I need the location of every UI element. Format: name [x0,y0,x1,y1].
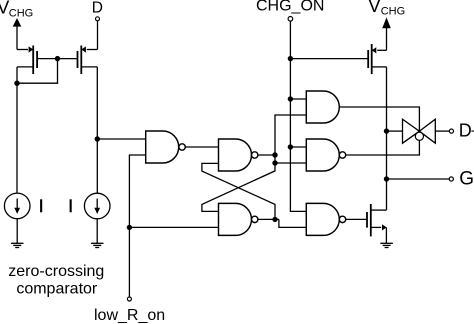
wire CHG_ON vertical to U6 input [290,21,306,211]
svg-text:D: D [92,0,103,16]
nand gate U5 [306,139,345,171]
node drain-gate junction [14,81,19,86]
power arrow V_CHG (left) [13,18,22,50]
nand gate U3 (latch bottom) [219,203,258,235]
power arrow V_CHG (right) [382,17,391,50]
node G output [384,176,389,181]
text zero-crossing comparator [8,263,104,298]
wire D terminal to M2 source [97,21,99,50]
ground (under I1) [11,243,24,247]
terminal G [449,177,453,181]
wire U4 output to switch top control [339,107,419,132]
svg-text:zero-crossing: zero-crossing [8,263,104,280]
value label I (left) [40,199,42,212]
ground (under M4) [380,243,393,247]
node Q [272,152,277,157]
node comparator output [95,136,100,141]
net label V_CHG (top right) [368,0,405,17]
wire cross-couple Q to U3 input [202,163,275,211]
svg-text:V: V [368,0,381,16]
nand gate U2 (latch top) [219,139,258,171]
node Qb [272,217,277,222]
node gate bus junction [55,56,60,61]
wire CHG_ON to M3 gate [290,58,368,60]
svg-text:CHG: CHG [381,5,405,17]
transistor M1 (left PMOS of current mirror) [17,46,37,75]
terminal D (top) [96,17,100,21]
current source I2 [84,193,110,219]
svg-text:comparator: comparator [16,281,98,298]
terminal CHG_ON [288,17,293,22]
nand gate U1 [146,131,186,163]
ground (under I2) [91,243,104,247]
svg-text:CHG_ON: CHG_ON [256,0,324,14]
wire I2 to ground [96,219,98,244]
transistor M2 (right PMOS of current mirror) [78,46,98,75]
svg-text:low_R_on: low_R_on [94,307,165,324]
transistor M3 (top right PMOS) [368,44,386,74]
terminal D (right) [449,129,453,133]
wire U6 output to M4 gate [346,218,367,220]
wire G output [387,178,450,180]
wire U2 output [258,154,275,156]
wire Q to U5 input [275,162,306,164]
current source I1 [4,193,30,219]
wire right rail (M3 drain down to M4 drain) [386,67,388,210]
node CHG_ON to U5 input [288,144,293,149]
node CHG_ON to M3 gate [288,56,293,61]
wire M2 drain down to current source I2 [96,67,98,193]
wire low_R_on tap to U3 input [129,226,218,228]
wire diode-connect feedback [17,59,58,84]
wire low_R_on to U1 input [129,155,145,297]
svg-text:CHG: CHG [9,8,33,20]
node rail to switch [384,128,389,133]
terminal low_R_on [127,297,131,301]
svg-text:G: G [459,168,474,189]
wire CHG_ON to U5 input [290,146,306,148]
net label V_CHG (top left) [0,0,33,20]
transistor M4 (bottom right NMOS) [367,204,387,243]
switch control bubble [415,132,423,140]
wire U3 output [258,218,279,220]
net label D_P (right) [459,120,474,140]
node CHG_ON to U4 input [288,96,293,101]
wire cross-couple Qb to U2 input [202,163,275,219]
value label I (right) [70,199,72,212]
wire CHG_ON to U4 input [290,98,306,100]
analog switch S1 (transmission gate to D) [387,119,450,143]
wire M1 drain down to current source I1 [16,67,18,193]
and gate U4 [306,91,339,123]
wire Qb to U6 input [279,219,306,227]
wire I1 to ground [16,219,18,244]
node low_R_on tap [127,225,132,230]
wire Q up to U4 input [275,115,306,163]
nand gate U6 [306,203,345,235]
wire U5 output to switch bottom control [346,141,420,156]
wire gate bus M1-M2 [37,58,77,60]
svg-text:+: + [471,123,474,140]
wire U1 output to U2 input [185,146,218,148]
wire comparator output to NAND U1 [97,138,145,140]
node Q lower [272,160,277,165]
